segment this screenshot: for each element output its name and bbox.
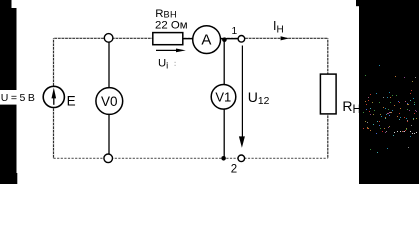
faint colon artifact xyxy=(175,62,176,63)
svg-text:RВН: RВН xyxy=(155,8,177,20)
wire: bottom horizontal (dashed) xyxy=(54,157,328,159)
ammeter A circle xyxy=(193,26,221,54)
left black border block (bottom foot) xyxy=(0,173,17,184)
wire: right vertical through load (dashed) xyxy=(327,38,329,158)
source E arrow shaft xyxy=(53,96,55,105)
svg-text:2: 2 xyxy=(231,164,237,176)
source E circle xyxy=(43,86,64,107)
svg-text:22 Ом: 22 Ом xyxy=(155,19,188,31)
arrow Ui under resistor (shaft) xyxy=(156,49,179,51)
svg-text:U = 5 В: U = 5 В xyxy=(1,92,35,104)
node 2 terminal circle xyxy=(238,155,245,162)
arrow U12 shaft node1 to node2 xyxy=(241,46,243,139)
load resistor Rn box xyxy=(320,74,336,114)
svg-text:V1: V1 xyxy=(215,90,231,105)
svg-text:V0: V0 xyxy=(101,94,118,109)
arrow Ui under resistor (head) xyxy=(176,49,186,53)
voltmeter V1 circle xyxy=(211,85,236,110)
arrow In on top wire xyxy=(281,36,289,40)
node circle bottom of V0 branch xyxy=(104,154,113,163)
svg-text:E: E xyxy=(67,94,76,109)
wire: solid segment resistor to node 1 xyxy=(183,38,238,40)
junction dot top of V1 branch xyxy=(222,37,227,42)
wire: voltmeter V0 branch vertical xyxy=(108,38,110,158)
svg-text:A: A xyxy=(201,32,211,49)
right black panel xyxy=(359,0,419,184)
right black panel top sliver xyxy=(356,0,360,6)
svg-text:1: 1 xyxy=(232,26,238,37)
node 1 terminal circle xyxy=(238,36,245,43)
wire: top horizontal (node to load corner, dashed) xyxy=(54,37,328,39)
left black border block (upper) xyxy=(0,8,17,90)
svg-text:IН: IН xyxy=(273,19,284,35)
left black border block (top narrow part) xyxy=(0,0,12,8)
svg-text:Ui: Ui xyxy=(158,58,168,72)
wire: voltmeter V1 branch vertical xyxy=(223,40,225,159)
left black border block (lower) xyxy=(0,105,17,173)
svg-text:U12: U12 xyxy=(248,89,270,107)
node circle top of V0 branch xyxy=(104,34,113,43)
svg-text:RН: RН xyxy=(342,98,360,116)
voltmeter V0 circle xyxy=(96,88,123,115)
resistor Rvn box xyxy=(153,33,183,45)
arrow U12 head xyxy=(239,136,245,147)
wire: left vertical through source E (dashed) xyxy=(53,38,55,158)
source E arrowhead xyxy=(52,88,57,99)
noise dots on right panel xyxy=(363,65,417,153)
junction dot bottom of V1 branch xyxy=(221,156,226,161)
